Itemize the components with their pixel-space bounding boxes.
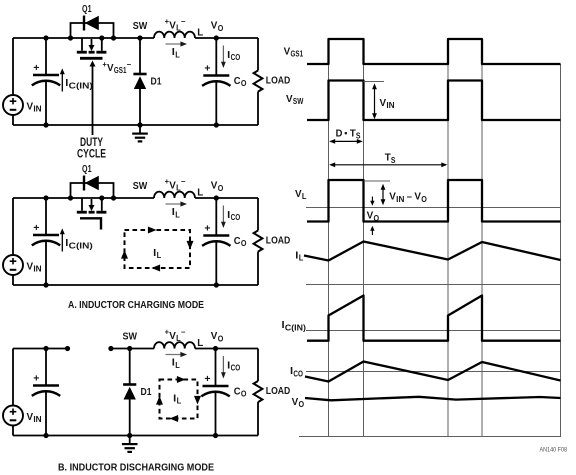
ground symbol [122,436,138,452]
svg-text:V: V [27,100,34,112]
svg-text:V: V [27,411,34,423]
wire input cap top lead [45,349,47,386]
wire left branch upper [12,198,14,256]
wire bottom rail [13,124,258,126]
junction dot CO bottom [214,122,219,127]
svg-text:L: L [177,397,182,406]
label D*TS [336,128,361,141]
svg-text:V: V [211,20,218,32]
open switch terminal dot right [108,346,113,351]
annotation VO small down arrow [370,197,374,206]
svg-text:V: V [107,62,114,74]
svg-text:CO: CO [231,53,241,62]
svg-text:L: L [175,210,180,219]
svg-text:C(IN): C(IN) [285,323,306,332]
junction dot input cap top [43,195,48,200]
wire top rail left segment [13,37,154,39]
svg-text:O: O [241,390,247,399]
wire input cap top lead [45,38,47,75]
svg-text:O: O [299,400,305,409]
svg-text:+: + [204,62,210,74]
current arrow IC(IN) [60,68,65,91]
svg-text:V: V [169,19,176,31]
svg-text:L: L [299,254,304,263]
transistor Q1 MOSFET symbol [77,38,107,52]
svg-text:V: V [169,179,176,191]
svg-text:V: V [295,188,302,200]
wire load top [257,198,259,231]
svg-text:SW: SW [133,20,148,32]
wire input cap bottom lead [45,241,47,286]
wire CO top lead [215,198,217,236]
svg-text:A. INDUCTOR CHARGING MODE: A. INDUCTOR CHARGING MODE [68,299,204,311]
svg-text:GS1: GS1 [291,50,304,59]
zero line VL [306,207,561,209]
current arrow ICO [221,206,226,229]
wire inductor output to load corner [195,37,258,39]
capacitor CO [202,236,230,246]
svg-text:V: V [211,330,218,342]
wire bottom rail [13,435,258,437]
current arrow ICO [221,356,226,379]
annotation VIN-VO reference line [364,180,390,182]
wire left branch lower [12,425,14,435]
zero line ICO [306,371,561,373]
svg-text:LOAD: LOAD [266,235,291,247]
resistor LOAD [254,381,263,402]
open switch terminal dot left [65,346,70,351]
svg-text:–: – [407,191,412,203]
waveform VSW [307,81,561,121]
svg-text:CO: CO [231,213,241,222]
svg-text:–: – [181,17,186,26]
svg-text:+: + [204,222,210,234]
svg-text:DUTY: DUTY [80,137,103,149]
svg-text:C: C [234,75,241,87]
svg-text:L: L [302,192,307,201]
annotation D*TS double arrow [329,139,363,144]
wire left branch lower [12,115,14,125]
junction dot input cap bottom [43,282,48,287]
inductor L [154,342,195,348]
wire CO bottom lead [215,392,217,436]
gate drive arrow from DUTY CYCLE [90,61,96,136]
waveform VGS1 [307,39,561,64]
svg-text:SW: SW [122,331,137,343]
wire bottom rail [13,284,258,286]
dashed current loop IL charging mode [121,227,194,272]
svg-text:–: – [127,60,132,69]
svg-text:D: D [336,128,343,140]
svg-text:L: L [175,50,180,59]
svg-text:IN: IN [33,265,41,274]
svg-text:D1: D1 [151,75,162,87]
svg-text:V: V [211,180,218,192]
wire inductor output to load corner [195,348,258,350]
label TS [385,152,396,165]
svg-text:IN: IN [386,101,394,110]
svg-text:O: O [218,24,224,33]
svg-text:SW: SW [293,97,304,106]
capacitor C_IN (input) [32,75,60,85]
svg-text:–: – [181,177,186,186]
svg-text:–: – [181,328,186,337]
current arrow ICO [221,46,226,69]
svg-text:V: V [414,191,421,203]
transistor Q1 body diode [84,16,99,31]
capacitor CO [201,386,229,396]
svg-text:V: V [169,330,176,342]
junction dot D1 bottom [137,122,142,127]
waveform grid vertical lines [329,64,561,437]
wire input cap bottom lead [45,391,47,436]
svg-text:+: + [33,372,39,384]
resistor LOAD [254,231,263,252]
svg-text:+: + [204,373,210,385]
transistor Q1 body diode [84,176,99,191]
svg-text:SW: SW [133,180,148,192]
svg-text:IN: IN [33,105,41,114]
current arrow IL under inductor [166,201,188,206]
svg-text:IN: IN [396,195,404,204]
svg-text:IN: IN [33,415,41,424]
waveform VL [307,180,561,222]
svg-text:O: O [374,214,380,223]
wire top rail left segment [13,197,154,199]
dashed current loop IL discharging mode [156,376,201,422]
junction dot CO bottom [213,433,218,438]
wire D1 anode to bottom rail [139,89,141,125]
wire CO top lead [215,38,217,76]
voltage source VIN [3,406,23,426]
inductor L [154,192,195,198]
wire top rail from input to open switch terminal [13,348,68,350]
junction dot Q1 body-diode right corner [111,35,116,40]
annotation TS double arrow [329,162,447,167]
label DUTY CYCLE [77,137,106,161]
svg-text:V: V [284,46,291,58]
svg-text:LOAD: LOAD [266,75,291,87]
annotation VIN-VO double arrow [381,184,386,206]
svg-text:O: O [218,334,224,343]
annotation VIN double arrow [372,83,377,119]
svg-text:O: O [241,79,247,88]
junction dot input cap top [43,35,48,40]
wire CO top lead [215,349,217,387]
current arrow IL under inductor [166,352,188,357]
capacitor CO [202,76,230,86]
transistor Q1 body-diode loop wire [71,23,114,38]
current arrow IL under inductor [166,41,188,46]
annotation VIN level reference line [364,81,385,83]
junction dot SW node [137,35,142,40]
svg-text:V: V [367,210,374,222]
transistor Q1 gate plate [80,218,101,229]
wire left branch upper [12,349,14,407]
svg-text:V: V [27,260,34,272]
diode D1 [123,385,136,400]
voltage source VIN [3,255,23,275]
svg-text:S: S [391,156,396,165]
junction dot input cap bottom [43,433,48,438]
waveform ICO [305,362,561,382]
resistor LOAD [254,71,263,92]
svg-text:V: V [292,396,299,408]
svg-text:L: L [197,337,204,349]
junction dot SW node [127,346,132,351]
svg-text:D1: D1 [141,386,152,398]
zero line IL [306,284,561,286]
capacitor C_IN (input) [32,386,60,396]
wire left branch lower [12,275,14,285]
svg-text:GS1: GS1 [114,66,127,75]
transistor Q1 MOSFET symbol [77,198,107,212]
waveform bottom axis [299,436,561,438]
junction dot Q1 source [99,35,104,40]
transistor Q1 gate plate [80,57,103,60]
wire load bottom [257,92,259,125]
svg-text:C: C [234,386,241,398]
wire CO bottom lead [215,81,217,125]
capacitor C_IN (input) [32,235,60,245]
svg-text:O: O [241,239,247,248]
svg-text:O: O [218,184,224,193]
svg-text:C(IN): C(IN) [69,81,93,90]
svg-text:CYCLE: CYCLE [77,149,106,161]
svg-text:+: + [33,62,39,74]
wire SW to D1 cathode [129,349,131,385]
wire input cap bottom lead [45,81,47,126]
svg-text:C: C [234,235,241,247]
svg-text:AN140 F08: AN140 F08 [540,446,568,453]
svg-text:V: V [286,93,293,105]
svg-text:V: V [380,97,387,109]
svg-text:S: S [356,132,361,141]
svg-text:L: L [175,361,180,370]
waveform IL [304,242,561,261]
ground symbol [132,125,148,141]
transistor Q1 body-diode loop wire [71,183,114,198]
wire load bottom [257,402,259,435]
svg-text:•: • [344,128,347,138]
voltage source VIN [3,95,23,115]
junction dot Q1 drain [68,35,73,40]
zero line IC(IN) [306,330,561,332]
junction dot Q1 drain [68,195,73,200]
inductor L [154,32,195,38]
svg-text:Q1: Q1 [82,3,92,15]
svg-text:B. INDUCTOR DISCHARGING MODE: B. INDUCTOR DISCHARGING MODE [58,461,214,473]
svg-text:L: L [197,26,204,38]
wire inductor output to load corner [195,197,258,199]
annotation VO small up arrow [370,226,374,235]
junction dot D1 bottom [127,433,132,438]
junction dot VO node [214,35,219,40]
svg-text:Q1: Q1 [82,163,92,175]
waveform IC(IN) [307,296,561,341]
wire SW to D1 cathode [139,38,141,74]
junction dot input cap bottom [43,122,48,127]
wire left branch upper [12,38,14,96]
junction dot VO node [214,195,219,200]
waveform VO [305,397,561,401]
svg-text:LOAD: LOAD [266,385,291,397]
diode D1 [133,74,146,89]
svg-text:C(IN): C(IN) [69,241,93,250]
wire D1 anode to bottom rail [129,400,131,436]
wire load top [257,349,259,382]
wire load bottom [257,252,259,285]
svg-text:V: V [389,191,396,203]
wire CO bottom lead [215,241,217,285]
junction dot Q1 body-diode right corner [111,195,116,200]
junction dot VO node [213,346,218,351]
junction dot input cap top [43,346,48,351]
wire input cap top lead [45,198,47,235]
junction dot Q1 source [99,195,104,200]
wire load top [257,38,259,71]
svg-text:+: + [33,222,39,234]
svg-text:O: O [421,195,427,204]
svg-text:L: L [197,186,204,198]
svg-text:L: L [157,251,162,260]
junction dot CO bottom [214,282,219,287]
wire SW node to inductor [111,348,154,350]
current arrow IC(IN) [60,228,65,251]
svg-text:CO: CO [293,369,303,378]
svg-text:CO: CO [231,364,241,373]
